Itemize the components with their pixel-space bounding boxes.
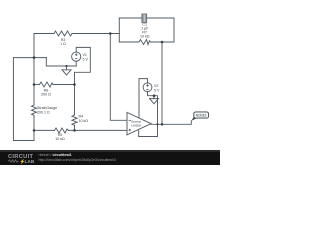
svg-text:5 V: 5 V (83, 57, 89, 61)
svg-text:StrainGauge: StrainGauge (37, 106, 57, 110)
svg-text:V1: V1 (83, 53, 87, 57)
svg-text:10 kΩ: 10 kΩ (55, 137, 65, 141)
svg-text:R3: R3 (61, 38, 66, 42)
svg-text:NODE1: NODE1 (196, 114, 207, 118)
svg-text:1 Ω: 1 Ω (60, 42, 66, 46)
svg-text:5 V: 5 V (154, 89, 160, 93)
svg-text:200 Ω: 200 Ω (41, 93, 51, 97)
svg-text:10 kΩ: 10 kΩ (140, 35, 150, 39)
svg-text:V2: V2 (154, 84, 158, 88)
svg-text:R5: R5 (58, 133, 63, 137)
svg-text:R4: R4 (79, 114, 84, 118)
svg-text:200.1 Ω: 200.1 Ω (37, 111, 50, 115)
svg-text:rbeech / circuittest1: rbeech / circuittest1 (39, 153, 72, 157)
svg-text:LM358: LM358 (131, 123, 141, 127)
svg-text:10 kΩ: 10 kΩ (79, 119, 89, 123)
svg-text:http://circuitlab.com/c/bpeh28: http://circuitlab.com/c/bpeh28s6p3e3/cir… (39, 158, 117, 162)
svg-text:LAB: LAB (25, 159, 35, 165)
